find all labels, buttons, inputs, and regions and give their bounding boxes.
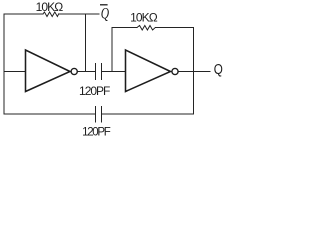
label C2 value 120PF — [82, 127, 111, 139]
wire bottom horizontal (C2 net) — [4, 113, 194, 115]
svg-text:Q: Q — [214, 61, 223, 78]
wire C1 to inverter U2 input — [102, 71, 126, 73]
wire top-left horizontal (R1 net) — [4, 13, 99, 15]
inverter U2 — [126, 50, 171, 92]
node Q-bar label — [100, 5, 109, 23]
wire Q-bar node vertical — [85, 14, 87, 72]
inverter U2 output bubble — [172, 68, 178, 74]
node Q label — [214, 61, 223, 78]
resistor R2 — [137, 26, 155, 31]
svg-text:10KΩ: 10KΩ — [36, 0, 64, 14]
svg-text:120PF: 120PF — [82, 127, 111, 139]
svg-text:120PF: 120PF — [79, 84, 110, 98]
wire U2 output to Q — [178, 71, 210, 73]
wire U1 output to C1 — [78, 71, 95, 73]
label R2 value 10KΩ — [130, 11, 158, 25]
label R1 value 10KΩ — [36, 0, 64, 14]
wire right vertical (Q net down to C2) — [193, 28, 195, 115]
inverter U1 output bubble — [71, 68, 77, 74]
inverter U1 — [26, 50, 71, 92]
wire top-right horizontal (R2 net) — [112, 27, 194, 29]
resistor R1 — [43, 12, 59, 17]
svg-text:Q: Q — [101, 6, 109, 23]
capacitor C1 120PF (coupling) — [96, 64, 102, 80]
wire left vertical — [3, 14, 5, 114]
label C1 value 120PF — [79, 84, 110, 98]
wire right-loop left vertical (R2 net) — [111, 28, 113, 72]
wire inverter U1 input — [4, 71, 26, 73]
svg-text:10KΩ: 10KΩ — [130, 11, 158, 25]
capacitor C2 120PF (bottom) — [96, 106, 102, 122]
